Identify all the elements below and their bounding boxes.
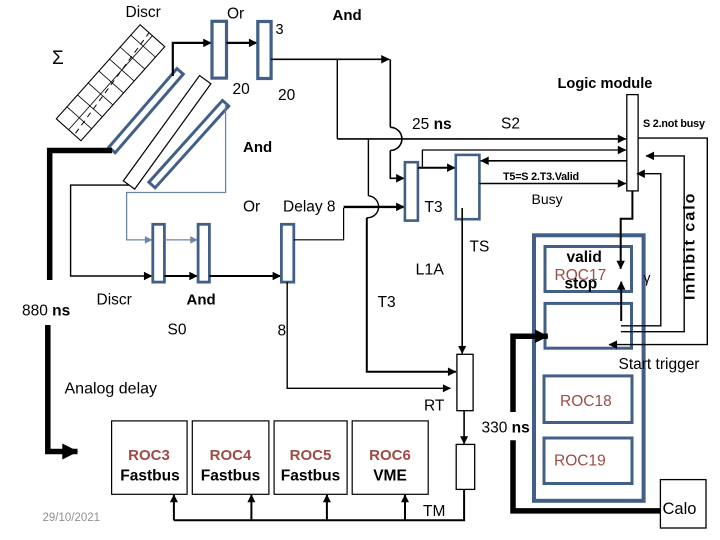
big DAQ crate box (right) — [534, 235, 644, 501]
counter slab (white) — [123, 76, 211, 190]
svg-text:S2: S2 — [501, 116, 520, 133]
svg-text:Σ: Σ — [52, 48, 64, 69]
black arrow Discr to And — [164, 275, 197, 277]
svg-text:S 2.not busy: S 2.not busy — [643, 118, 705, 130]
label VME — [373, 468, 407, 485]
label TS — [470, 239, 490, 256]
label Analog delay — [65, 381, 158, 398]
svg-text:TM: TM — [423, 503, 445, 520]
TM readout bus — [174, 489, 464, 520]
T5 line to logic module — [479, 183, 626, 185]
blue wire bar S2 to Discr — [127, 104, 226, 240]
label 330 ns — [482, 420, 530, 437]
wire hop over delay line — [367, 196, 379, 218]
svg-text:ROC18: ROC18 — [560, 393, 612, 410]
module Discr (lower) — [153, 224, 165, 282]
scintillator bar S1 (blue) — [109, 69, 183, 153]
svg-text:Fastbus: Fastbus — [281, 468, 340, 485]
label 3 — [276, 22, 284, 38]
svg-text:Analog delay: Analog delay — [65, 381, 158, 398]
thick 330ns calo trigger path — [513, 336, 660, 511]
label date — [43, 512, 101, 524]
thick analog line from bar S1 — [50, 151, 112, 281]
svg-text:Busy: Busy — [532, 191, 563, 207]
wire RT to TM — [463, 411, 465, 444]
svg-text:ROC3: ROC3 — [128, 447, 170, 464]
svg-text:stop: stop — [565, 276, 598, 293]
svg-text:Fastbus: Fastbus — [201, 468, 260, 485]
wire And node down — [336, 59, 338, 139]
label And top — [333, 7, 362, 24]
module T3 coincidence — [456, 155, 480, 219]
label Discr top — [126, 4, 161, 21]
svg-text:Or: Or — [227, 6, 244, 23]
T3 drop wire — [367, 139, 369, 196]
label Fastbus 1 — [120, 468, 179, 485]
svg-text:And: And — [243, 139, 272, 156]
label Fastbus 2 — [201, 468, 260, 485]
arrow bus to ROC3 — [173, 495, 175, 521]
busy return line — [481, 160, 627, 162]
label RT — [424, 398, 445, 415]
Or2 output wire to And node — [271, 59, 390, 127]
arrow bus to ROC4 — [250, 495, 252, 521]
label L1A — [416, 262, 445, 279]
box ROC19 — [544, 438, 632, 484]
label ROC19 — [554, 453, 606, 470]
module T3 gate (narrow) — [405, 162, 418, 220]
module Delay 8 — [281, 224, 293, 282]
label Inhibit calo (vertical) — [682, 192, 699, 300]
L1A wire into RT — [367, 218, 456, 372]
svg-text:T5=S 2.T3.Valid: T5=S 2.T3.Valid — [503, 171, 579, 183]
svg-text:880 ns: 880 ns — [22, 303, 70, 320]
arrow bus to ROC5 — [326, 495, 328, 521]
T3 gate output to T3 module — [418, 167, 455, 169]
svg-text:29/10/2021: 29/10/2021 — [43, 512, 101, 524]
svg-text:ROC4: ROC4 — [210, 447, 252, 464]
svg-text:Logic module: Logic module — [558, 76, 653, 92]
label Calo — [663, 500, 697, 518]
detector hodoscope grid — [56, 25, 164, 141]
wire hop over 25ns line — [390, 127, 402, 150]
arrow Or1 to Or2 — [227, 42, 258, 44]
gamma wire to logic module — [621, 174, 661, 326]
scintillator bar S2 (blue) — [149, 100, 229, 187]
label Busy — [532, 191, 563, 207]
svg-text:RT: RT — [424, 398, 445, 415]
svg-text:VME: VME — [373, 468, 407, 485]
start wire up arrow — [620, 282, 622, 321]
label gamma — [644, 270, 651, 286]
label ROC4 — [210, 447, 252, 464]
arrow And to Delay — [209, 275, 280, 277]
label ROC3 — [128, 447, 170, 464]
label S2 — [501, 116, 520, 133]
Delay bottom wire to RT — [287, 282, 450, 388]
box TDC start/stop — [545, 303, 632, 348]
label 20 second — [278, 87, 296, 104]
label ROC17 — [555, 267, 607, 284]
box ROC6 VME — [352, 421, 428, 494]
svg-text:L1A: L1A — [416, 262, 445, 279]
label And middle — [243, 139, 272, 156]
svg-text:ROC5: ROC5 — [290, 447, 332, 464]
label T3 gate — [425, 199, 443, 216]
svg-text:Delay 8: Delay 8 — [283, 199, 336, 216]
svg-text:ROC19: ROC19 — [554, 453, 606, 470]
branch wire to logic module — [422, 150, 626, 168]
Delay output wire — [294, 207, 404, 240]
label Logic module — [558, 76, 653, 92]
label S0 — [168, 322, 187, 339]
label Discr lower — [97, 292, 132, 309]
label And lower — [187, 292, 216, 309]
svg-text:8: 8 — [278, 323, 287, 340]
S2.not busy wire wrap to start trigger — [609, 138, 707, 345]
label ROC5 — [290, 447, 332, 464]
svg-text:T3: T3 — [425, 199, 443, 216]
svg-text:S0: S0 — [168, 322, 187, 339]
label 20 first — [233, 81, 251, 98]
svg-text:Discr: Discr — [97, 292, 132, 309]
module Or discr 1 — [212, 21, 227, 78]
svg-text:Calo: Calo — [663, 500, 697, 518]
module Or 2 — [258, 22, 271, 79]
wire bar S1 to Or discr — [173, 43, 212, 76]
arrow bus to ROC6 — [404, 495, 406, 521]
svg-text:valid: valid — [567, 249, 602, 266]
svg-text:25 ns: 25 ns — [412, 116, 452, 133]
label Delay 8 — [283, 199, 336, 216]
TS wire to RT — [461, 208, 463, 354]
label S2.not busy — [643, 118, 705, 130]
svg-text:Or: Or — [243, 199, 260, 216]
box ROC3 Fastbus — [112, 421, 188, 494]
svg-text:330 ns: 330 ns — [482, 420, 530, 437]
wire slab to Discr — [71, 185, 152, 276]
second return wire to logic module — [621, 156, 684, 332]
svg-text:20: 20 — [233, 81, 251, 98]
thick analog delay line with arrow — [48, 325, 78, 452]
label Fastbus 3 — [281, 468, 340, 485]
module TM — [456, 444, 475, 489]
box ROC5 Fastbus — [274, 421, 347, 494]
svg-text:γ: γ — [644, 270, 651, 286]
svg-text:TS: TS — [470, 239, 490, 256]
logic module stop wire — [621, 191, 633, 269]
box ROC18 — [544, 376, 632, 423]
svg-text:Fastbus: Fastbus — [120, 468, 179, 485]
label 25 ns — [412, 116, 452, 133]
label 8 — [278, 323, 287, 340]
blue arrow Discr to And — [164, 239, 197, 241]
label T3 lower — [378, 294, 396, 311]
svg-text:Discr: Discr — [126, 4, 161, 21]
label 880 ns — [22, 303, 70, 320]
label valid — [567, 249, 602, 266]
label Start trigger — [619, 356, 700, 373]
label TM — [423, 503, 445, 520]
label ROC18 — [560, 393, 612, 410]
box Calo — [660, 480, 706, 528]
wire into T3 gate module — [390, 151, 404, 179]
svg-text:And: And — [333, 7, 362, 24]
svg-text:20: 20 — [278, 87, 296, 104]
box ROC17 valid/stop — [545, 247, 632, 292]
25 ns S2 line to logic module — [337, 138, 626, 140]
svg-text:Start trigger: Start trigger — [619, 356, 700, 373]
module RT — [457, 354, 473, 410]
label T5=S2.T3.Valid — [503, 171, 579, 183]
label stop — [565, 276, 598, 293]
svg-text:And: And — [187, 292, 216, 309]
label Or top — [227, 6, 244, 23]
module Logic — [627, 95, 638, 191]
svg-text:ROC6: ROC6 — [369, 447, 411, 464]
module And (lower) — [198, 224, 209, 282]
box ROC4 Fastbus — [192, 421, 269, 494]
svg-text:3: 3 — [276, 22, 284, 38]
svg-text:T3: T3 — [378, 294, 396, 311]
label sigma — [52, 48, 64, 69]
svg-text:Inhibit calo: Inhibit calo — [682, 192, 699, 300]
label Or lower — [243, 199, 260, 216]
label ROC6 — [369, 447, 411, 464]
